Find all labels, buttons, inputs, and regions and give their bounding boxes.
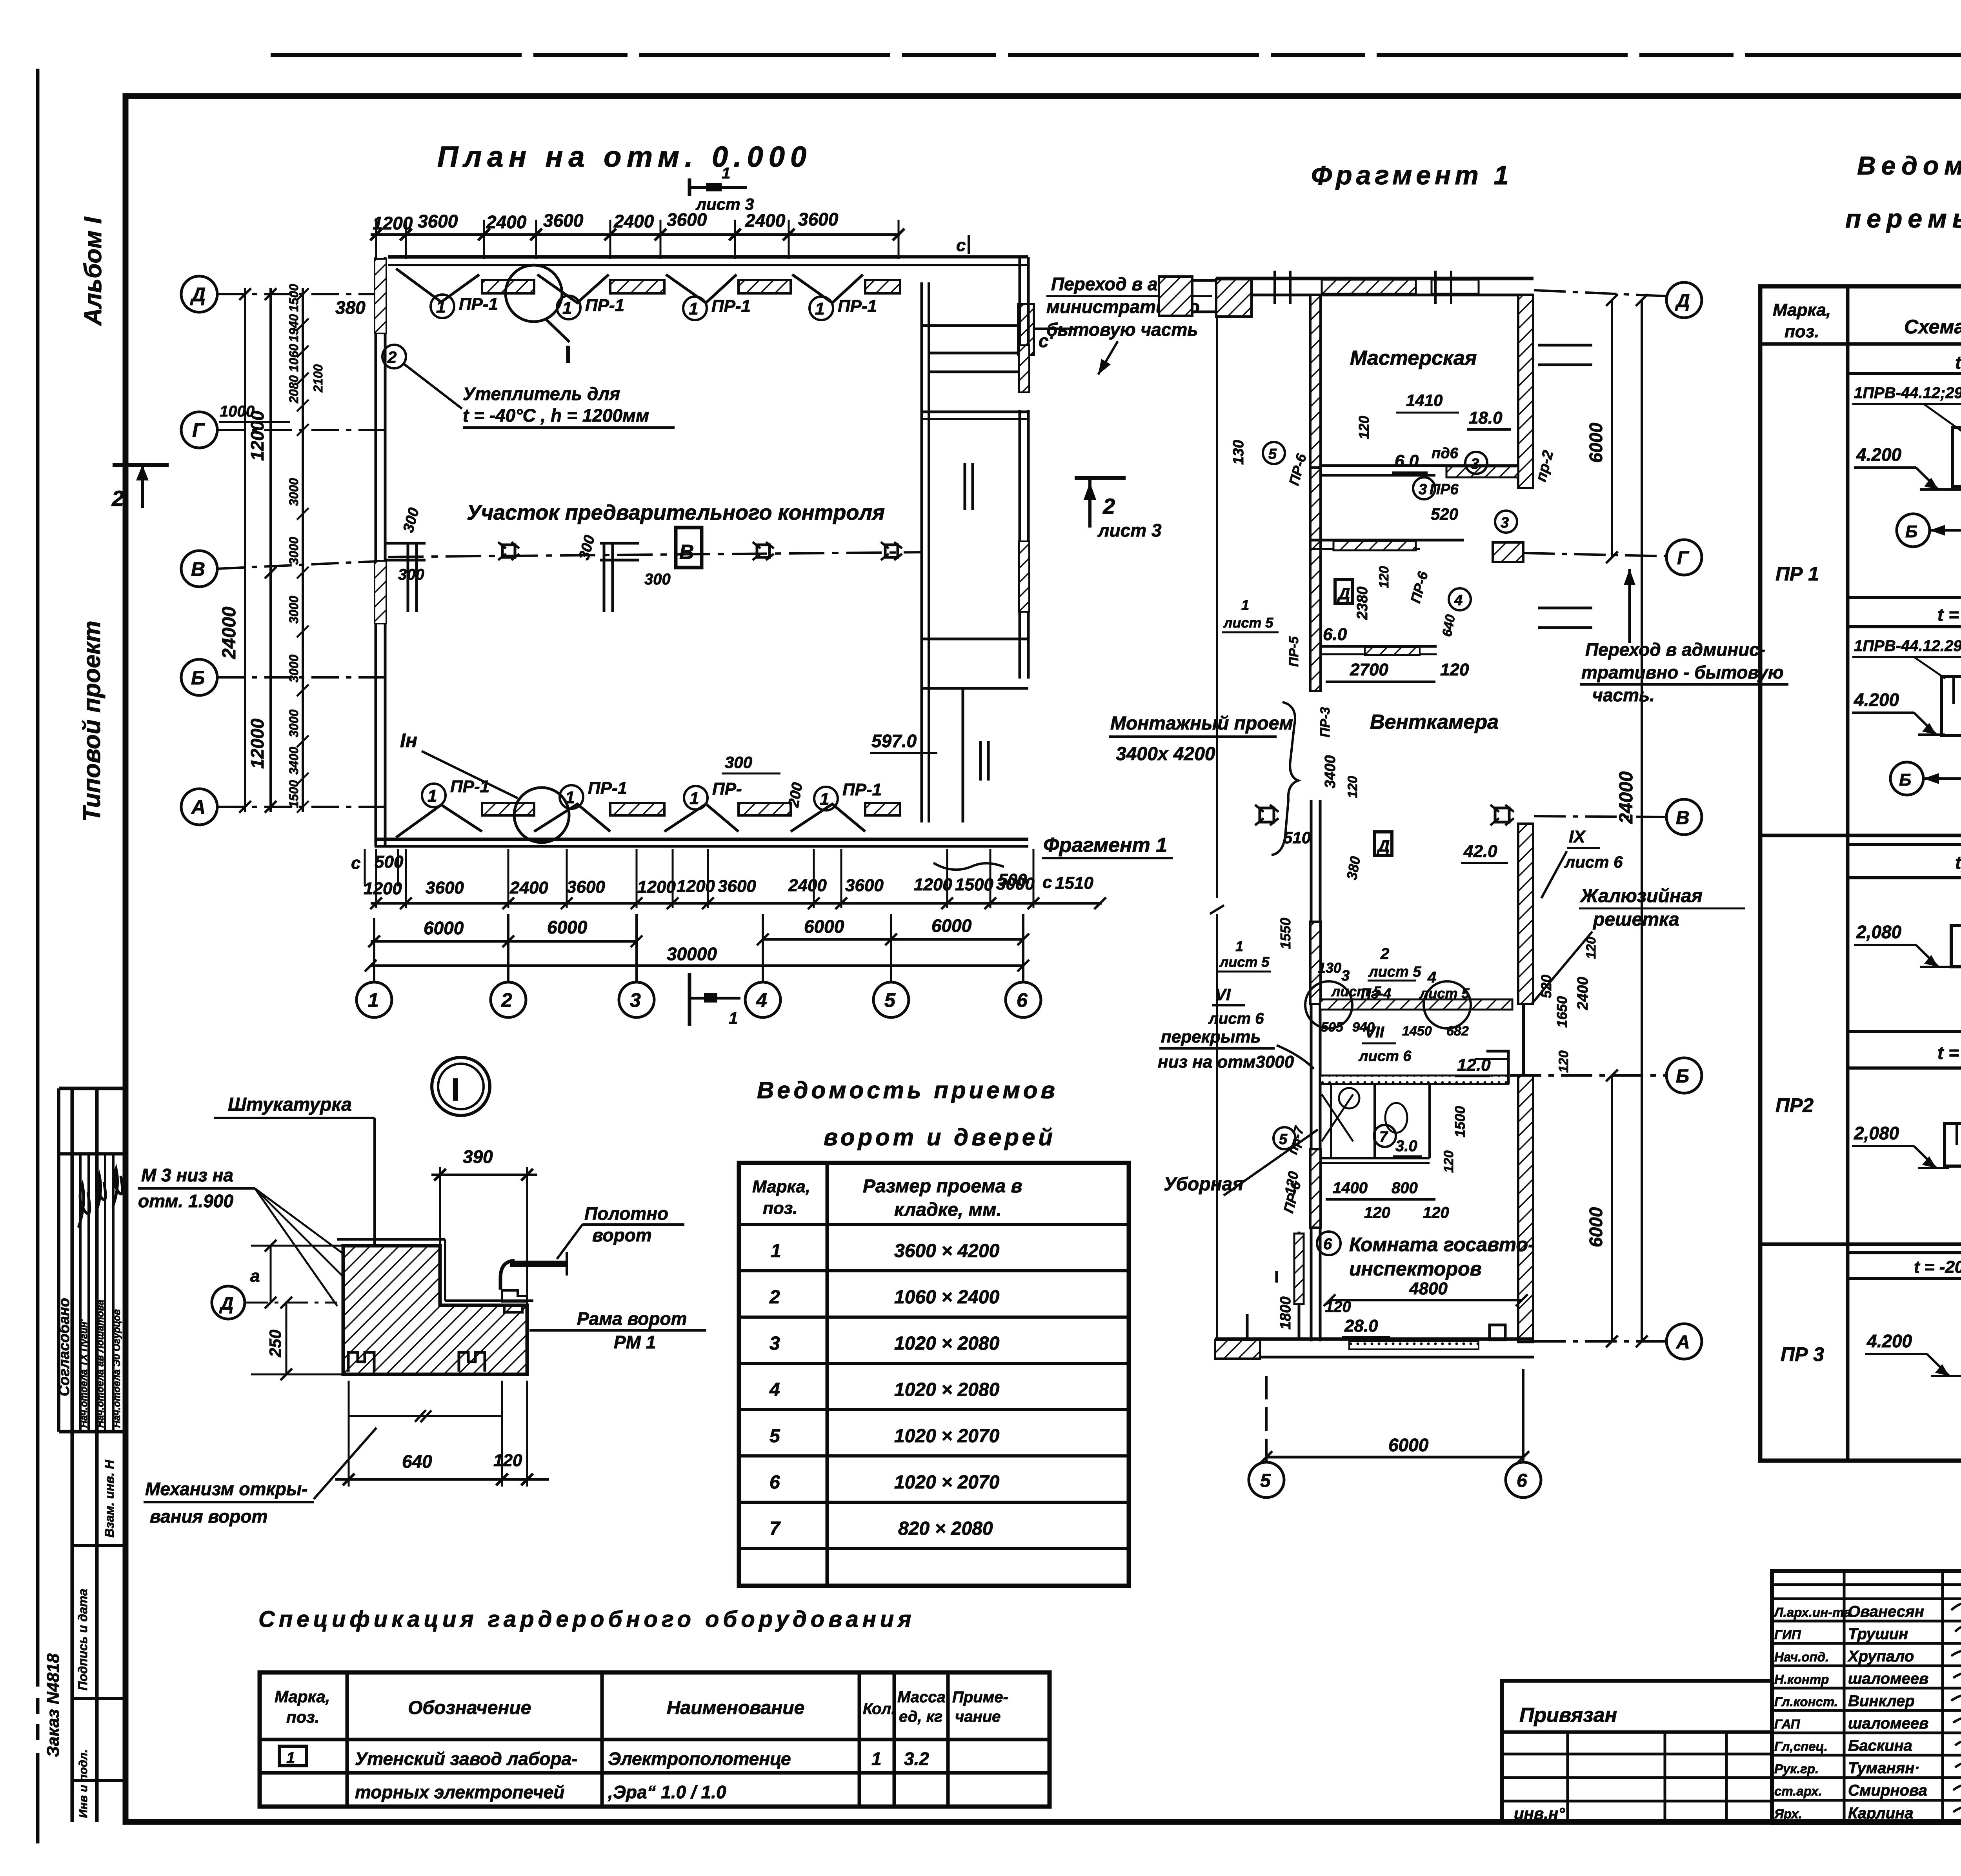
svg-text:1: 1 xyxy=(815,299,824,318)
svg-text:Карлина: Карлина xyxy=(1848,1805,1913,1822)
V axis dash-dot through hall xyxy=(388,552,922,557)
svg-text:ед, кг: ед, кг xyxy=(899,1708,942,1725)
svg-text:1: 1 xyxy=(722,165,730,182)
svg-text:820 × 2080: 820 × 2080 xyxy=(898,1518,993,1539)
corridor top right walls xyxy=(900,255,1028,258)
svg-text:130: 130 xyxy=(1318,960,1341,976)
intermediate dim line with break xyxy=(349,1415,502,1417)
lower openings cluster xyxy=(1320,999,1512,1010)
t strip PR2 b xyxy=(1848,1030,1961,1033)
PR1 block a xyxy=(1852,384,1961,547)
svg-text:Согласобано: Согласобано xyxy=(56,1298,73,1396)
svg-text:300: 300 xyxy=(725,753,752,772)
svg-text:шаломеев: шаломеев xyxy=(1848,1715,1928,1732)
svg-text:1500: 1500 xyxy=(287,284,301,312)
strip verticals xyxy=(57,1088,60,1432)
svg-text:2380: 2380 xyxy=(1354,586,1371,620)
svg-text:Ведомость: Ведомость xyxy=(1857,151,1961,180)
svg-text:лист 5: лист 5 xyxy=(1219,954,1270,970)
svg-text:3: 3 xyxy=(630,989,641,1011)
right rooms outer wall xyxy=(1019,257,1021,392)
section mark 2 left xyxy=(113,463,169,467)
svg-text:120: 120 xyxy=(1345,776,1360,798)
svg-text:Марка,: Марка, xyxy=(1773,300,1831,320)
svg-text:4: 4 xyxy=(756,989,767,1011)
svg-text:1: 1 xyxy=(562,298,572,318)
svg-text:Гл.конст.: Гл.конст. xyxy=(1774,1694,1838,1709)
svg-text:Н.контр: Н.контр xyxy=(1774,1672,1829,1687)
signatures squiggles xyxy=(1951,1601,1961,1813)
svg-text:Венткамера: Венткамера xyxy=(1370,711,1499,733)
svg-text:Альбом I: Альбом I xyxy=(80,216,107,326)
left wall of hall xyxy=(375,257,377,846)
svg-text:Д: Д xyxy=(1675,291,1690,311)
svg-text:1: 1 xyxy=(1235,938,1243,954)
svg-text:Мастерская: Мастерская xyxy=(1350,347,1477,369)
vertical dim chains left xyxy=(219,284,366,813)
svg-text:6: 6 xyxy=(1517,1470,1527,1491)
svg-text:VI: VI xyxy=(1215,985,1231,1004)
L wall piece near axis3 xyxy=(600,543,639,612)
svg-text:ПР-: ПР- xyxy=(712,779,742,799)
svg-text:28.0: 28.0 xyxy=(1344,1316,1378,1336)
t strip PR1 b xyxy=(1848,596,1961,599)
svg-text:940: 940 xyxy=(1352,1020,1375,1035)
svg-text:поз.: поз. xyxy=(763,1199,797,1218)
svg-text:Переход в админис-: Переход в админис- xyxy=(1585,639,1765,660)
svg-text:В: В xyxy=(191,558,205,580)
svg-text:Г: Г xyxy=(1677,548,1690,569)
bottom axis circles 5 6 xyxy=(1249,1462,1541,1498)
svg-text:Полотно: Полотно xyxy=(584,1203,668,1224)
svg-text:120: 120 xyxy=(1441,1150,1456,1173)
svg-text:ГИП: ГИП xyxy=(1774,1627,1801,1642)
VEDOMOST PRIEMOV TABLE xyxy=(739,1077,1129,1586)
svg-text:1400: 1400 xyxy=(1333,1179,1368,1197)
svg-text:1: 1 xyxy=(368,989,379,1011)
svg-text:Рук.гр.: Рук.гр. xyxy=(1774,1761,1819,1776)
svg-text:2: 2 xyxy=(387,348,397,366)
svg-text:торных электропечей: торных электропечей xyxy=(355,1782,564,1802)
PR1 block b xyxy=(1852,637,1961,795)
svg-text:ПР-3: ПР-3 xyxy=(1318,707,1333,737)
svg-text:Хрупало: Хрупало xyxy=(1847,1648,1914,1665)
svg-text:ПР6: ПР6 xyxy=(1430,481,1459,498)
svg-text:24000: 24000 xyxy=(219,606,240,659)
svg-text:2700: 2700 xyxy=(1350,660,1388,679)
svg-text:3600: 3600 xyxy=(667,209,707,230)
LEFT MARGIN STRIP xyxy=(44,216,126,1822)
svg-text:Подпись и дата: Подпись и дата xyxy=(76,1589,90,1690)
svg-text:ПР-5: ПР-5 xyxy=(1286,636,1301,667)
svg-text:7: 7 xyxy=(769,1518,781,1539)
svg-text:2400: 2400 xyxy=(509,878,548,897)
svg-text:Рама ворот: Рама ворот xyxy=(577,1308,687,1329)
top dashed scan line xyxy=(271,53,1961,57)
svg-text:3400: 3400 xyxy=(1322,755,1339,788)
svg-text:42.0: 42.0 xyxy=(1463,842,1497,861)
axis dash-dot stubs from circles xyxy=(217,294,388,807)
svg-text:перемычек: перемычек xyxy=(1845,204,1961,233)
room partitions right xyxy=(922,411,1028,413)
top dimension texts xyxy=(373,209,839,233)
svg-text:лист 6: лист 6 xyxy=(1208,1010,1264,1027)
svg-text:120: 120 xyxy=(1377,566,1392,588)
top dim line with ticks xyxy=(370,220,904,259)
wall pier at left on V axis xyxy=(386,543,426,612)
svg-text:4: 4 xyxy=(1454,592,1463,609)
svg-text:1200: 1200 xyxy=(677,877,715,896)
montazh opening brace on left wall xyxy=(1272,702,1298,855)
svg-text:Спецификация гардеробного о: Спецификация гардеробного оборудования xyxy=(258,1607,915,1632)
plaster line on top xyxy=(337,1238,445,1241)
svg-text:1650: 1650 xyxy=(1554,996,1570,1028)
svg-text:3600: 3600 xyxy=(798,209,839,229)
north mark between 3 and 4 xyxy=(688,973,691,1026)
svg-text:Размер проема в: Размер проема в xyxy=(863,1176,1022,1197)
svg-text:отм. 1.900: отм. 1.900 xyxy=(138,1191,234,1211)
svg-text:520: 520 xyxy=(1431,505,1458,523)
svg-text:3600 × 4200: 3600 × 4200 xyxy=(894,1241,1000,1261)
svg-text:Iн: Iн xyxy=(400,730,417,751)
toilet cubicles xyxy=(1320,1084,1430,1163)
svg-text:800: 800 xyxy=(1392,1179,1418,1197)
svg-text:1ПРВ-44.12.29: 1ПРВ-44.12.29 xyxy=(1854,637,1961,655)
svg-text:24000: 24000 xyxy=(1616,771,1637,824)
svg-text:перекрыть: перекрыть xyxy=(1161,1027,1261,1046)
gate frame profile steps xyxy=(502,1290,527,1301)
svg-text:12000: 12000 xyxy=(247,719,267,769)
svg-text:1020 × 2070: 1020 × 2070 xyxy=(894,1472,1000,1493)
svg-text:Баскина: Баскина xyxy=(1848,1737,1912,1754)
svg-text:лист 5: лист 5 xyxy=(1223,615,1273,631)
svg-text:t,= - 20°С: t,= - 20°С xyxy=(1955,852,1961,873)
circled I marker xyxy=(432,1057,490,1115)
circled 5 and 130 left xyxy=(1263,442,1285,464)
svg-text:Участок предварительного контр: Участок предварительного контроля xyxy=(467,501,885,524)
svg-text:5: 5 xyxy=(1268,446,1277,462)
In detail circle xyxy=(514,788,569,842)
privyazan block xyxy=(1502,1681,1772,1822)
svg-text:Гл,спец.: Гл,спец. xyxy=(1774,1739,1828,1754)
svg-text:IX: IX xyxy=(1569,827,1586,846)
svg-text:130: 130 xyxy=(1230,440,1247,465)
svg-text:3: 3 xyxy=(769,1333,780,1354)
svg-text:2: 2 xyxy=(769,1287,780,1308)
svg-text:380: 380 xyxy=(335,297,366,318)
svg-text:3600: 3600 xyxy=(543,210,584,231)
column axis2 xyxy=(498,542,519,560)
svg-text:Трушин: Трушин xyxy=(1848,1625,1908,1643)
svg-text:Марка,: Марка, xyxy=(275,1687,330,1706)
svg-text:тративно - бытовую: тративно - бытовую xyxy=(1581,662,1784,682)
svg-text:инв.н°: инв.н° xyxy=(1514,1804,1565,1823)
left scan edge line xyxy=(36,69,40,1687)
boxed D labels xyxy=(1335,580,1352,603)
svg-text:1500: 1500 xyxy=(1452,1106,1468,1137)
svg-text:6: 6 xyxy=(769,1472,780,1493)
svg-text:t = -20°, -30°, –40°: t = -20°, -30°, –40° xyxy=(1914,1257,1961,1277)
bottom wall fragment xyxy=(1215,1337,1534,1341)
svg-text:3000: 3000 xyxy=(287,655,301,682)
circled 2 + utepl leader xyxy=(382,345,406,368)
PR3 block xyxy=(1865,1292,1961,1422)
svg-text:ворот и дверей: ворот и дверей xyxy=(824,1124,1056,1150)
svg-text:Ярх.: Ярх. xyxy=(1774,1807,1802,1821)
svg-text:1940: 1940 xyxy=(287,314,301,342)
svg-text:6000: 6000 xyxy=(804,916,844,937)
svg-text:3600: 3600 xyxy=(567,877,605,897)
svg-text:3: 3 xyxy=(1419,481,1427,498)
svg-text:План на отм. 0.000: План на отм. 0.000 xyxy=(437,140,812,173)
boxed V label xyxy=(676,528,702,568)
svg-text:6.0: 6.0 xyxy=(1323,625,1347,644)
svg-text:Утеплитель для: Утеплитель для xyxy=(463,384,620,404)
section mark 2 list3 right xyxy=(1075,476,1126,480)
svg-text:6000: 6000 xyxy=(424,918,464,938)
V axis columns fragment xyxy=(1255,805,1279,825)
top wall band xyxy=(1216,277,1534,280)
svg-text:Нач.опд.: Нач.опд. xyxy=(1774,1650,1829,1664)
table grid xyxy=(739,1163,1129,1586)
list3 mark xyxy=(689,165,754,213)
svg-text:1060 × 2400: 1060 × 2400 xyxy=(894,1287,1000,1308)
svg-text:Привязан: Привязан xyxy=(1519,1704,1617,1727)
svg-text:18.0: 18.0 xyxy=(1469,408,1503,428)
svg-text:2400: 2400 xyxy=(1575,977,1591,1010)
right inner wall xyxy=(920,282,923,822)
svg-text:3400х 4200: 3400х 4200 xyxy=(1116,744,1215,764)
svg-text:,Эра“ 1.0 / 1.0: ,Эра“ 1.0 / 1.0 xyxy=(608,1782,726,1802)
svg-text:Нач.отдела ТХ Пугин': Нач.отдела ТХ Пугин' xyxy=(78,1319,89,1428)
svg-text:3600: 3600 xyxy=(845,876,884,895)
rows xyxy=(769,1241,1000,1539)
top lintel bars xyxy=(482,280,534,293)
svg-text:2: 2 xyxy=(501,989,512,1011)
svg-text:4.200: 4.200 xyxy=(1866,1331,1912,1351)
svg-text:t = -20°С: t = -20°С xyxy=(1955,352,1961,373)
TITLE BLOCK xyxy=(1502,1571,1961,1853)
svg-text:чание: чание xyxy=(955,1708,1001,1725)
detail circle I on top wall xyxy=(506,265,562,322)
top corridor stubs xyxy=(1159,277,1192,316)
svg-text:1060: 1060 xyxy=(287,344,301,372)
G axis partition xyxy=(1310,539,1464,542)
svg-text:лист 3: лист 3 xyxy=(1097,520,1162,540)
svg-text:120: 120 xyxy=(1364,1204,1390,1221)
svg-text:t = -30° , - 40°С: t = -30° , - 40°С xyxy=(1937,1043,1961,1063)
bottom gates xyxy=(396,804,865,837)
right wall lower xyxy=(1518,824,1533,1004)
svg-text:Штукатурка: Штукатурка xyxy=(228,1094,352,1115)
svg-text:Б: Б xyxy=(1899,770,1911,790)
svg-text:1200: 1200 xyxy=(637,877,676,897)
svg-text:1510: 1510 xyxy=(1055,873,1093,893)
svg-text:ПР-1: ПР-1 xyxy=(711,297,751,316)
svg-text:6000: 6000 xyxy=(547,917,588,937)
svg-text:Механизм откры-: Механизм откры- xyxy=(145,1479,307,1499)
bottom wall xyxy=(375,838,1028,841)
left wall hatched xyxy=(1310,295,1321,468)
svg-text:12.0: 12.0 xyxy=(1457,1055,1491,1075)
bottom lintel bars xyxy=(482,803,534,815)
svg-text:1450: 1450 xyxy=(1402,1024,1432,1039)
svg-text:Электрополотенце: Электрополотенце xyxy=(608,1749,791,1769)
svg-text:3400: 3400 xyxy=(287,747,301,775)
detail body hatched masonry xyxy=(343,1246,527,1374)
right wall upper hatched xyxy=(1518,295,1533,488)
svg-text:Б: Б xyxy=(191,667,205,689)
svg-text:4.200: 4.200 xyxy=(1854,690,1899,710)
svg-text:6000: 6000 xyxy=(1388,1435,1429,1455)
svg-text:ПР 3: ПР 3 xyxy=(1781,1343,1824,1365)
svg-text:В: В xyxy=(679,541,694,564)
svg-text:с: с xyxy=(1042,873,1052,892)
svg-text:120: 120 xyxy=(1584,937,1599,959)
svg-text:Смирнова: Смирнова xyxy=(1848,1782,1927,1799)
B axis dotted partition xyxy=(1320,1075,1508,1084)
building top wall xyxy=(388,255,900,259)
svg-text:1: 1 xyxy=(436,297,446,317)
left axis circles xyxy=(181,276,217,825)
svg-text:5: 5 xyxy=(769,1426,780,1447)
svg-text:ПР2: ПР2 xyxy=(1775,1094,1814,1116)
svg-text:3: 3 xyxy=(1471,456,1479,472)
svg-text:лист 6: лист 6 xyxy=(1358,1048,1412,1064)
svg-text:3600: 3600 xyxy=(418,211,458,231)
PR-1 labels bottom xyxy=(422,777,882,810)
svg-text:I: I xyxy=(451,1072,460,1108)
svg-text:3: 3 xyxy=(1501,515,1509,531)
svg-text:7: 7 xyxy=(1379,1129,1388,1145)
svg-text:А: А xyxy=(191,796,206,818)
window sill marks top xyxy=(1275,271,1451,304)
svg-text:3: 3 xyxy=(1341,968,1350,984)
svg-text:ПР-1: ПР-1 xyxy=(838,297,877,316)
PR-1 labels top xyxy=(431,295,877,320)
left small wall stubs xyxy=(1247,1271,1277,1339)
svg-text:2: 2 xyxy=(111,486,124,511)
svg-text:с: с xyxy=(351,853,360,873)
svg-text:2400: 2400 xyxy=(486,212,527,232)
svg-text:I: I xyxy=(565,341,571,368)
fragment left dim line xyxy=(1216,288,1218,898)
svg-text:В: В xyxy=(1676,808,1690,828)
svg-text:с: с xyxy=(956,236,966,255)
door leaf horizontal xyxy=(510,1261,567,1267)
svg-text:Д: Д xyxy=(1337,584,1350,603)
PR2 block b xyxy=(1852,1084,1961,1220)
svg-text:Обозначение: Обозначение xyxy=(408,1698,531,1718)
svg-text:1000: 1000 xyxy=(220,403,255,420)
svg-text:3000: 3000 xyxy=(287,710,301,737)
svg-text:Схема сечения: Схема сечения xyxy=(1904,316,1961,338)
svg-text:300: 300 xyxy=(644,571,671,588)
svg-text:Кол.: Кол. xyxy=(863,1700,896,1718)
svg-text:1: 1 xyxy=(286,1749,295,1767)
SPECIFIKACIJA TABLE xyxy=(258,1607,1050,1807)
svg-text:Нач.отдела Э0 Огурцов: Нач.отдела Э0 Огурцов xyxy=(111,1309,122,1428)
svg-text:1ПРВ-44.12;29: 1ПРВ-44.12;29 xyxy=(1854,384,1961,402)
grid xyxy=(260,1672,1050,1807)
TABLE 1 (nachalo) xyxy=(1760,286,1961,1461)
svg-text:5: 5 xyxy=(1260,1470,1271,1491)
svg-text:1: 1 xyxy=(820,790,829,809)
svg-text:390: 390 xyxy=(463,1146,493,1167)
svg-text:2,080: 2,080 xyxy=(1854,1123,1899,1143)
svg-text:2100: 2100 xyxy=(311,364,325,393)
signature squiggles xyxy=(78,1185,90,1228)
svg-text:Д: Д xyxy=(1377,837,1390,855)
svg-text:ПР-1: ПР-1 xyxy=(585,296,624,315)
svg-text:4: 4 xyxy=(769,1379,780,1400)
svg-text:2,080: 2,080 xyxy=(1856,922,1902,942)
svg-text:ст.арх.: ст.арх. xyxy=(1774,1784,1822,1798)
svg-text:1020 × 2080: 1020 × 2080 xyxy=(894,1333,1000,1354)
svg-text:Ованесян: Ованесян xyxy=(1848,1603,1924,1620)
svg-text:инспекторов: инспекторов xyxy=(1349,1258,1482,1280)
svg-text:ГАП: ГАП xyxy=(1774,1717,1801,1731)
svg-text:1: 1 xyxy=(689,789,699,808)
svg-text:t = -40°С , h = 1200мм: t = -40°С , h = 1200мм xyxy=(463,405,649,426)
svg-text:6: 6 xyxy=(1323,1236,1332,1253)
svg-text:3600: 3600 xyxy=(718,877,756,896)
svg-text:30000: 30000 xyxy=(667,944,717,964)
svg-text:3000: 3000 xyxy=(287,537,301,565)
svg-text:1: 1 xyxy=(1241,597,1249,613)
svg-text:лист 5: лист 5 xyxy=(1368,964,1421,980)
svg-text:6.0: 6.0 xyxy=(1395,451,1419,471)
t strip PR3 xyxy=(1848,1251,1961,1254)
svg-text:РМ 1: РМ 1 xyxy=(614,1332,656,1352)
columns axis4 axis5 xyxy=(753,542,774,560)
right vertical dim lines xyxy=(1611,300,1613,557)
svg-text:120: 120 xyxy=(1423,1204,1449,1221)
svg-text:Винклер: Винклер xyxy=(1848,1692,1915,1710)
svg-text:Г: Г xyxy=(192,419,205,441)
svg-text:640: 640 xyxy=(402,1451,432,1472)
svg-text:597.0: 597.0 xyxy=(871,731,917,751)
svg-text:ПР-1: ПР-1 xyxy=(588,779,627,798)
svg-text:Взам. инв. Н: Взам. инв. Н xyxy=(102,1459,116,1538)
svg-text:А: А xyxy=(1676,1332,1690,1353)
svg-text:Заказ N4818: Заказ N4818 xyxy=(44,1653,63,1757)
svg-text:лист 6: лист 6 xyxy=(1564,853,1623,871)
svg-text:5: 5 xyxy=(884,989,896,1011)
bottom channels xyxy=(348,1352,374,1372)
roles xyxy=(1774,1605,1851,1821)
svg-text:Туманян·: Туманян· xyxy=(1848,1760,1920,1777)
svg-text:1550: 1550 xyxy=(1277,918,1293,949)
svg-text:Д: Д xyxy=(190,284,206,306)
svg-text:1200: 1200 xyxy=(364,879,402,898)
svg-text:Б: Б xyxy=(1905,522,1917,541)
partition under ventkamera top xyxy=(1320,645,1437,648)
svg-text:Фрагмент 1: Фрагмент 1 xyxy=(1043,834,1167,857)
svg-text:3000: 3000 xyxy=(287,478,301,506)
signature sub columns xyxy=(79,1154,82,1432)
svg-text:1: 1 xyxy=(689,299,698,318)
svg-text:кладке, мм.: кладке, мм. xyxy=(894,1199,1002,1220)
svg-text:Ведомость приемов: Ведомость приемов xyxy=(757,1077,1058,1103)
svg-text:пд6: пд6 xyxy=(1432,445,1459,462)
partition mastersk bottom xyxy=(1320,464,1518,467)
svg-text:520: 520 xyxy=(1538,975,1554,998)
svg-text:М 3 низ на: М 3 низ на xyxy=(141,1165,233,1185)
svg-text:Типовой проект: Типовой проект xyxy=(78,620,106,822)
svg-text:120: 120 xyxy=(1325,1298,1351,1316)
svg-text:Б: Б xyxy=(1676,1066,1689,1087)
